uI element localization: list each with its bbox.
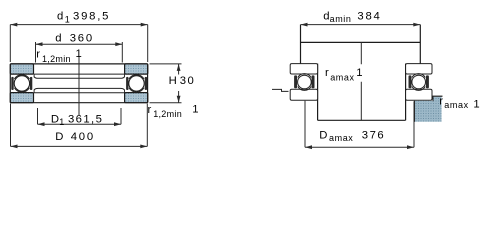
svg-text:amax: amax — [330, 72, 354, 82]
shaft body through bore — [318, 64, 406, 121]
svg-text:D: D — [51, 113, 59, 125]
left bearing cage bars — [294, 75, 314, 88]
svg-text:1: 1 — [192, 104, 198, 116]
svg-text:1: 1 — [59, 117, 64, 127]
svg-text:384: 384 — [357, 11, 381, 23]
left bearing raceway arcs — [298, 74, 311, 91]
svg-text:H: H — [169, 75, 177, 87]
left bearing ball — [298, 75, 312, 89]
right bearing ball — [412, 75, 426, 89]
svg-text:d: d — [323, 11, 329, 23]
dimension d1 398,5 — [10, 25, 147, 62]
svg-text:amax: amax — [329, 133, 353, 143]
svg-text:1: 1 — [76, 48, 82, 60]
svg-text:1: 1 — [65, 14, 70, 24]
shaft slab — [301, 25, 421, 64]
right bearing: top washer — [406, 64, 432, 74]
svg-text:r: r — [148, 104, 152, 116]
svg-text:1,2min: 1,2min — [153, 109, 182, 119]
svg-text:398,5: 398,5 — [73, 11, 110, 23]
svg-text:D: D — [55, 131, 63, 143]
dimension d_amin 384 — [301, 24, 421, 26]
svg-text:400: 400 — [71, 131, 95, 143]
left bearing: top washer — [290, 64, 317, 74]
raceway groove arcs right ball — [129, 75, 144, 92]
svg-text:1: 1 — [356, 67, 362, 79]
dimension D_amax 376 — [305, 101, 414, 148]
svg-text:376: 376 — [362, 129, 385, 141]
svg-text:1,2min: 1,2min — [42, 54, 71, 64]
dimension d 360 — [36, 42, 123, 63]
svg-text:360: 360 — [70, 33, 94, 45]
cage bars right section — [126, 77, 147, 90]
svg-text:361,5: 361,5 — [68, 113, 103, 125]
right bearing: bottom washer — [406, 89, 432, 100]
washer ring section right-bottom (housing washer) — [125, 93, 148, 103]
ball left — [14, 76, 29, 91]
svg-text:1: 1 — [473, 99, 479, 111]
svg-text:d: d — [57, 11, 63, 23]
washer ring section right-top (shaft washer) — [125, 64, 148, 74]
cage bars left section — [11, 77, 32, 90]
svg-text:r: r — [36, 48, 40, 60]
raceway groove arcs left ball — [14, 75, 29, 92]
housing surface left — [272, 89, 289, 91]
washer ring section left-bottom (housing washer) — [10, 93, 33, 103]
dimension D 400 — [11, 104, 148, 147]
svg-text:amin: amin — [330, 14, 352, 24]
svg-text:r: r — [439, 96, 443, 108]
svg-text:D: D — [319, 129, 327, 141]
right bearing cage bars — [409, 75, 429, 88]
svg-text:d: d — [55, 33, 61, 45]
svg-text:30: 30 — [180, 75, 195, 87]
left bearing: bottom washer — [290, 89, 317, 100]
elevation lines between sections — [34, 74, 125, 93]
centerline right view — [360, 42, 362, 120]
dimension D1 361,5 — [38, 108, 122, 124]
dimension H 30 — [150, 64, 182, 103]
washer ring section left-top (shaft washer) — [10, 64, 33, 74]
housing block (teal) right — [433, 97, 442, 102]
svg-text:r: r — [325, 67, 329, 79]
right bearing raceway arcs — [412, 74, 425, 91]
bearing outer edges — [10, 64, 147, 103]
centerline left view — [78, 57, 80, 115]
ball right — [129, 76, 144, 91]
svg-text:amax: amax — [444, 100, 468, 110]
